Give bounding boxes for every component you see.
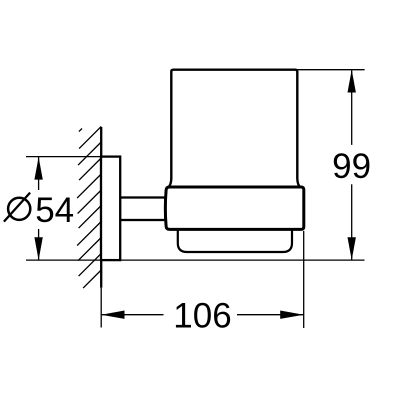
arrow 106 left xyxy=(101,311,124,319)
extension line: ring right edge downward (for 106) xyxy=(303,231,305,328)
arrow 106 right xyxy=(280,311,304,319)
extension line: glass top, right (for 99) xyxy=(297,69,364,71)
arrow dia54 down xyxy=(34,237,42,260)
svg-text:106: 106 xyxy=(173,297,231,336)
arrow 99 down xyxy=(348,237,356,260)
arrow 99 up xyxy=(348,70,356,93)
glass bottom lip xyxy=(178,215,292,252)
dimension line 99 (vertical, right) xyxy=(351,70,353,145)
wall hatching xyxy=(77,127,101,289)
svg-text:54: 54 xyxy=(35,191,74,230)
svg-text:99: 99 xyxy=(332,147,371,186)
extension baseline: bottom of plate extended both sides (for dia 54 and 99) xyxy=(26,259,365,261)
extension line: plate top, left (for dia 54) xyxy=(26,156,101,158)
arrow dia54 up xyxy=(34,157,42,180)
extension line: wall face downward (for 106) xyxy=(100,288,102,328)
dimension line dia 54 (vertical, left) xyxy=(38,157,40,190)
mounting arm xyxy=(120,198,172,221)
dimension line 106 (horizontal, bottom) xyxy=(101,314,163,316)
glass tumbler xyxy=(168,70,300,189)
wall plate xyxy=(101,157,120,261)
label dia 54 : diameter symbol drawn as circle + slash xyxy=(8,198,30,220)
holder ring xyxy=(165,187,303,229)
wall line xyxy=(100,127,102,288)
